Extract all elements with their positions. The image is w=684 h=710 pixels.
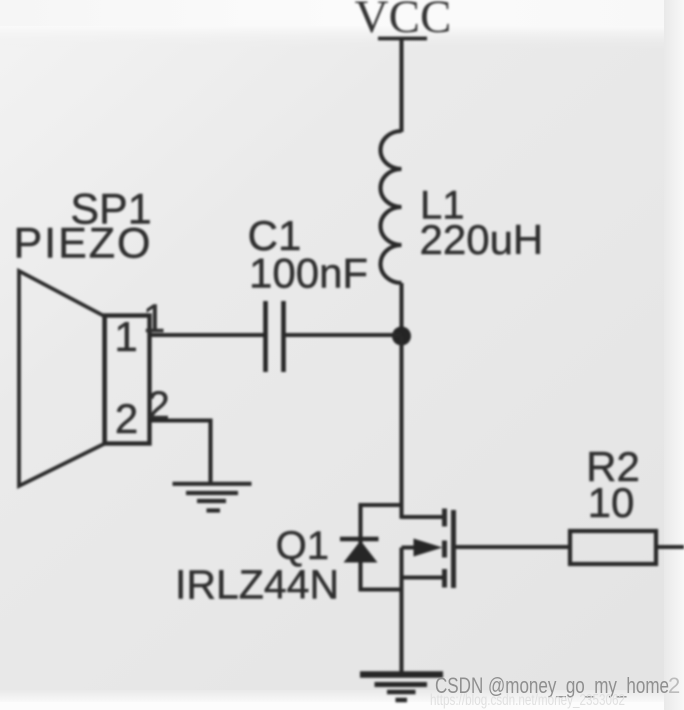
speaker pin 2 number (inside)	[115, 395, 138, 442]
svg-text:220uH: 220uH	[420, 216, 544, 263]
Q1 channel bar segments	[442, 509, 447, 588]
value 10	[588, 479, 635, 526]
wire drain stub	[402, 515, 445, 519]
capacitor C1 left plate	[263, 301, 268, 372]
speaker PIEZO label	[13, 220, 152, 268]
speaker SP1 label	[70, 186, 151, 234]
speaker pin 1 number (inside)	[114, 313, 137, 360]
ground (source)	[360, 675, 443, 701]
inductor L1	[381, 131, 402, 283]
wire C1 to node	[284, 333, 402, 337]
wire source bottom stub	[402, 575, 445, 579]
wire VCC to L1	[399, 39, 403, 133]
power VCC bar	[378, 37, 427, 41]
power VCC label	[355, 0, 452, 43]
wire L1 to node	[399, 283, 403, 336]
speaker SP1 cone	[19, 271, 105, 486]
transistor Q1 part number IRLZ44N	[175, 562, 339, 608]
pin 2 label (outside)	[148, 384, 170, 428]
wire source to ground	[399, 548, 403, 675]
wire gate to R2	[456, 545, 570, 549]
node junction dot	[392, 327, 411, 346]
svg-text:https://blog.csdn.net/money_23: https://blog.csdn.net/money_2353062	[430, 692, 625, 709]
body diode triangle	[344, 541, 378, 563]
wire node to Q1 drain	[399, 336, 403, 519]
watermark	[435, 673, 680, 698]
capacitor C1 right plate	[281, 301, 286, 372]
faint echo watermark	[430, 692, 625, 709]
svg-text:10: 10	[588, 479, 635, 526]
ground (speaker pin 2)	[173, 484, 252, 511]
wire body-diode branch	[361, 505, 402, 590]
label R2	[586, 443, 640, 490]
wire source/body stub with arrow	[402, 539, 443, 557]
resistor R2	[570, 531, 656, 564]
svg-text:IRLZ44N: IRLZ44N	[175, 562, 339, 608]
value 220uH	[420, 216, 544, 263]
svg-text:2: 2	[115, 395, 138, 442]
Q1 gate bar	[451, 510, 456, 588]
label L1	[420, 184, 465, 228]
wire R2 to edge	[656, 545, 684, 549]
svg-text:1: 1	[114, 313, 137, 360]
value 100nF	[249, 250, 368, 297]
pin 1 label (outside)	[143, 297, 165, 341]
svg-text:VCC: VCC	[355, 0, 452, 43]
speaker SP1 body rectangle	[105, 316, 150, 444]
svg-text:PIEZO: PIEZO	[13, 220, 152, 268]
svg-text:2: 2	[668, 673, 680, 698]
body diode cathode bar	[340, 537, 379, 542]
transistor Q1 label	[276, 524, 329, 568]
wire pin1 to C1	[150, 333, 266, 337]
svg-text:100nF: 100nF	[249, 250, 368, 297]
wire pin2 to ground	[150, 421, 211, 484]
label C1	[248, 212, 302, 259]
